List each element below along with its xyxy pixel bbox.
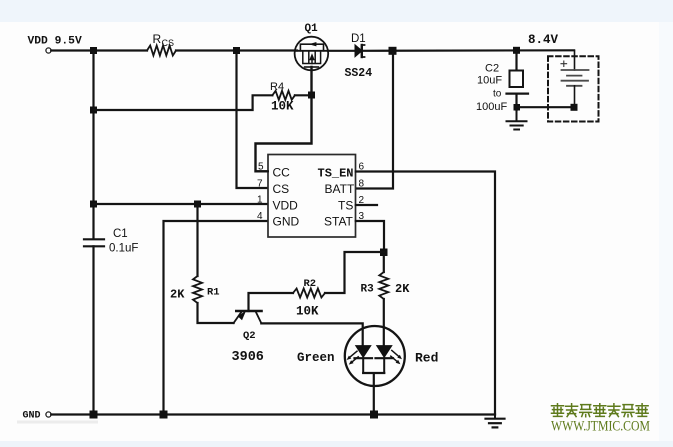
- label RCS: [153, 32, 175, 48]
- svg-text:CS: CS: [273, 182, 290, 196]
- svg-text:Red: Red: [415, 351, 438, 366]
- wire D1 to battery branch: [362, 49, 574, 52]
- svg-text:R3: R3: [361, 284, 375, 296]
- junction battery bottom: [571, 104, 578, 111]
- svg-text:2: 2: [359, 195, 365, 206]
- wire GND pin line: [164, 221, 269, 415]
- svg-text:GND: GND: [23, 411, 41, 422]
- LED green emission arrows: [347, 351, 359, 364]
- junction VDD line / R1: [194, 201, 201, 208]
- svg-text:to: to: [493, 89, 502, 100]
- junction left rail / R4 branch: [90, 107, 97, 114]
- svg-text:VDD: VDD: [273, 199, 299, 213]
- wire top rail left (terminal to RCS): [51, 49, 147, 51]
- svg-text:R: R: [153, 32, 162, 46]
- battery BT1: [561, 50, 589, 104]
- svg-text:2K: 2K: [395, 282, 410, 296]
- LED pair outline: [345, 326, 405, 386]
- svg-text:R2: R2: [304, 278, 317, 290]
- junction C2 bottom: [514, 104, 521, 111]
- wire left rail upper: [92, 51, 94, 239]
- svg-text:R4: R4: [270, 81, 284, 93]
- svg-text:SS24: SS24: [345, 67, 373, 80]
- wire R4 branch: [94, 95, 273, 110]
- transistor Q1 (P-MOSFET): [295, 37, 329, 71]
- wire R4 to Q1 drain line: [295, 94, 312, 96]
- resistor R2: [293, 289, 325, 298]
- wire Q1 to D1: [328, 50, 355, 52]
- node VDD input terminal: [46, 48, 51, 53]
- wire STAT node to R3 and red LED: [383, 255, 385, 346]
- ground (C2): [507, 110, 527, 130]
- svg-text:10K: 10K: [271, 100, 294, 114]
- wire STAT node to R2: [325, 252, 384, 293]
- svg-text:CS: CS: [162, 38, 175, 48]
- wire LED common cathode: [363, 373, 384, 415]
- LED red emission arrows: [391, 350, 402, 364]
- svg-text:100uF: 100uF: [476, 101, 507, 113]
- svg-text:CC: CC: [273, 166, 291, 180]
- wire C2 branch down: [515, 52, 517, 71]
- op-amp U1 (charger IC box): [268, 155, 356, 238]
- svg-text:TS_EN: TS_EN: [318, 167, 354, 181]
- wire top rail RCS to Q1: [176, 49, 297, 51]
- diode D1 (schottky): [355, 45, 365, 57]
- wire BATT pin riser: [356, 53, 393, 189]
- resistor R4: [272, 91, 295, 100]
- svg-text:3: 3: [359, 211, 365, 222]
- svg-text:10K: 10K: [296, 305, 319, 319]
- svg-text:R1: R1: [207, 287, 220, 299]
- resistor RCS: [147, 46, 176, 56]
- junction top rail / CS sense: [233, 47, 240, 54]
- svg-text:C1: C1: [113, 228, 128, 240]
- wire Q2 collector to green LED: [261, 323, 362, 345]
- svg-text:5: 5: [258, 162, 264, 173]
- svg-text:Q2: Q2: [243, 330, 256, 342]
- junction gnd rail / left rail: [90, 411, 98, 419]
- junction gnd rail / GND pin: [160, 411, 168, 419]
- capacitor C1: [84, 239, 104, 246]
- wire ground rail: [51, 413, 495, 415]
- junction gnd rail / LED: [370, 411, 378, 419]
- transistor Q2 (PNP 3906): [234, 311, 262, 323]
- pin 6 stub / TS_EN wire to ground rail: [356, 172, 495, 415]
- junction D1 / BATT feedback: [389, 47, 397, 55]
- resistor R1: [193, 276, 202, 303]
- wire left rail lower: [92, 246, 94, 414]
- pin 2 stub (TS, n.c.): [356, 204, 377, 206]
- svg-text:8.4V: 8.4V: [528, 33, 559, 47]
- svg-text:Green: Green: [297, 351, 335, 365]
- svg-text:VDD 9.5V: VDD 9.5V: [28, 36, 82, 48]
- svg-text:3906: 3906: [232, 350, 264, 365]
- LED green: [355, 346, 373, 374]
- wire R2 to Q2 base: [249, 293, 294, 311]
- wire Q1 gate down to CC: [256, 67, 312, 171]
- junction STAT node: [380, 249, 388, 257]
- wire VDD pin line: [94, 203, 269, 205]
- resistor R3: [379, 272, 388, 299]
- svg-text:GND: GND: [273, 215, 300, 229]
- wire CS sense riser: [237, 54, 269, 188]
- wire VDD node to R1: [196, 206, 198, 276]
- svg-text:WWW.JTMIC.COM: WWW.JTMIC.COM: [551, 419, 650, 435]
- pin 3 stub / STAT wire: [356, 221, 384, 252]
- svg-text:2K: 2K: [170, 288, 185, 302]
- svg-text:7: 7: [257, 179, 263, 190]
- svg-text:Q1: Q1: [305, 23, 319, 35]
- junction left rail / VDD pin: [90, 201, 97, 208]
- svg-text:8: 8: [359, 179, 365, 190]
- svg-text:C2: C2: [485, 63, 499, 75]
- pin 5 stub: [256, 170, 269, 172]
- svg-text:BATT: BATT: [325, 182, 355, 196]
- svg-text:0.1uF: 0.1uF: [109, 243, 138, 255]
- wire R1 to Q2 emitter: [198, 303, 234, 323]
- LED red: [376, 346, 394, 374]
- svg-text:D1: D1: [351, 33, 366, 45]
- junction top rail / left rail: [90, 47, 97, 54]
- junction R4 / gate line: [308, 92, 315, 99]
- svg-text:1: 1: [257, 195, 263, 206]
- svg-text:STAT: STAT: [324, 215, 354, 229]
- junction C2 tap: [513, 47, 520, 54]
- svg-text:6: 6: [359, 162, 365, 173]
- ground (rail end): [486, 415, 505, 428]
- svg-text:10uF: 10uF: [477, 75, 502, 87]
- svg-text:TS: TS: [338, 199, 353, 213]
- battery BT1 dashed outline: [548, 56, 599, 121]
- wire C2 to battery bottom: [517, 106, 575, 108]
- svg-text:4: 4: [257, 211, 263, 222]
- watermark chinese characters: [552, 404, 649, 417]
- capacitor C2: [507, 71, 529, 111]
- node GND terminal: [46, 412, 51, 417]
